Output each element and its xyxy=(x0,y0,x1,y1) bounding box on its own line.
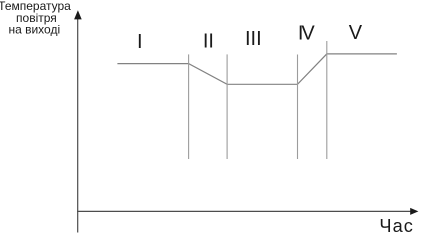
svg-text:III: III xyxy=(245,28,262,50)
svg-text:Час: Час xyxy=(379,216,414,234)
y-axis line xyxy=(77,19,79,233)
y-axis arrowhead xyxy=(74,10,82,19)
svg-text:V: V xyxy=(349,22,363,44)
svg-text:II: II xyxy=(203,31,214,53)
zone divider line 3 xyxy=(297,55,299,160)
x-axis arrowhead xyxy=(410,208,418,215)
x-axis line xyxy=(77,210,411,212)
svg-text:на виході: на виході xyxy=(8,23,60,37)
zone divider line 1 xyxy=(188,54,190,159)
zone divider line 2 xyxy=(226,54,228,159)
temperature step curve xyxy=(117,54,397,84)
svg-text:I: I xyxy=(137,31,143,53)
zone divider line 4 xyxy=(326,41,328,159)
